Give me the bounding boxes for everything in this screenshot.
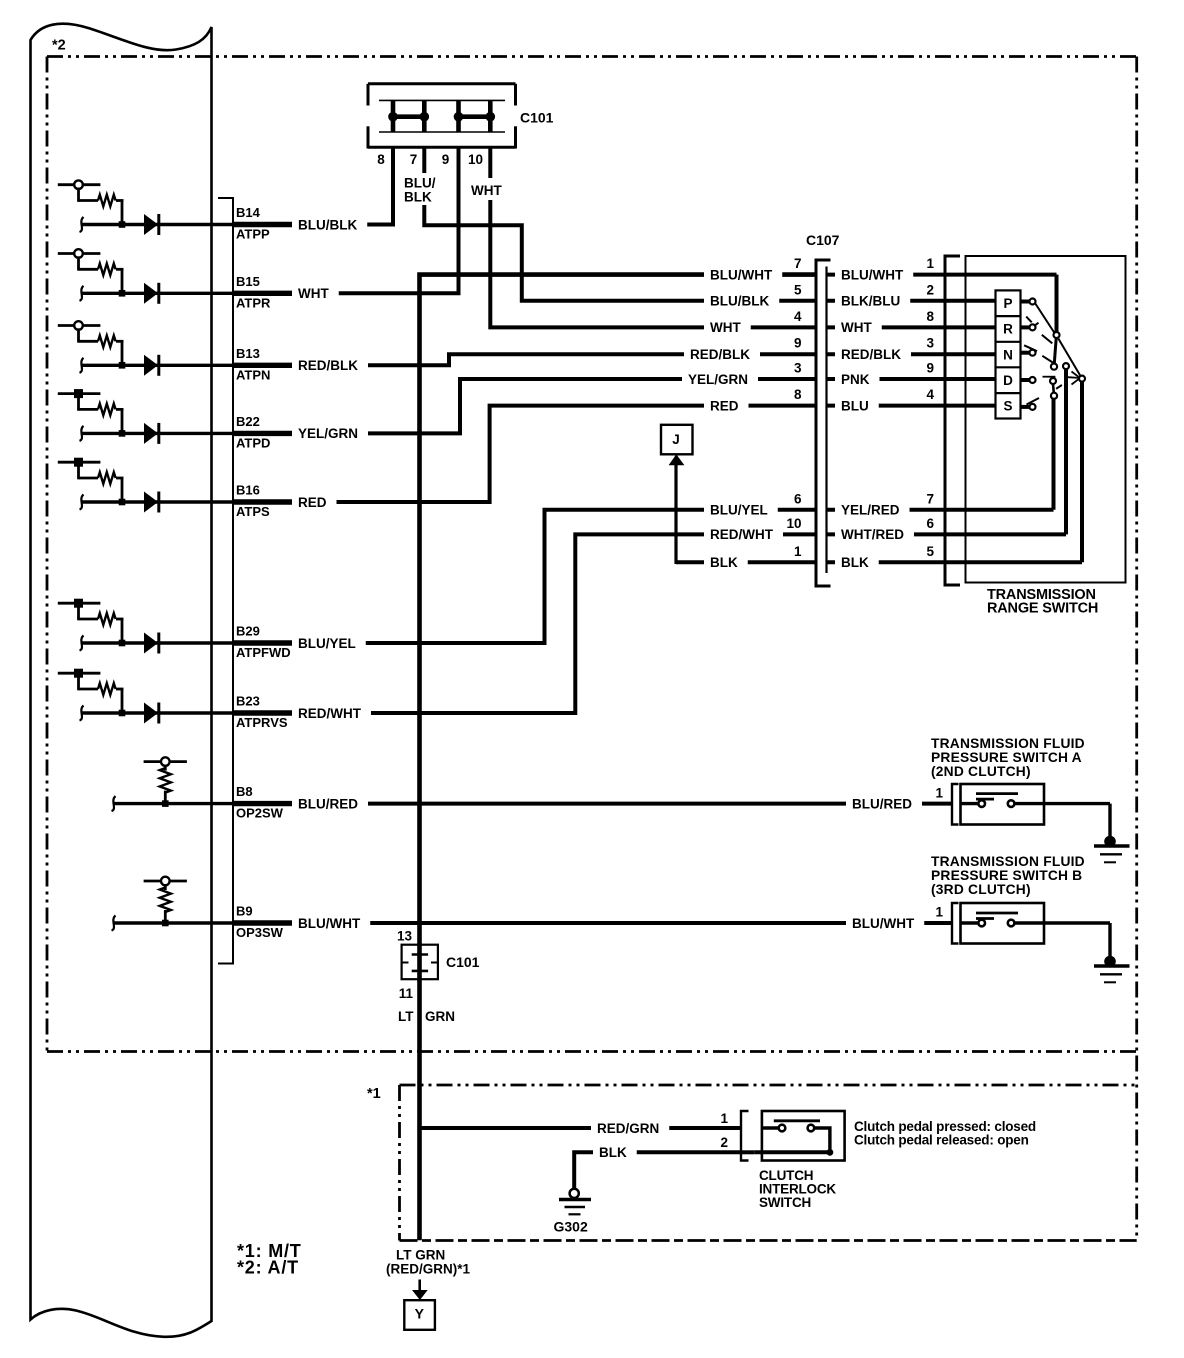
svg-text:RANGE SWITCH: RANGE SWITCH xyxy=(987,601,1098,617)
svg-text:4: 4 xyxy=(794,309,802,324)
wire label BLU/YEL (B29) xyxy=(292,635,366,651)
svg-text:S: S xyxy=(1003,399,1012,414)
svg-text:BLU/WHT: BLU/WHT xyxy=(852,916,915,931)
svg-text:RED/GRN: RED/GRN xyxy=(597,1121,659,1136)
pin stub B23/ATPRVS xyxy=(233,710,295,715)
pin stub B14/ATPP xyxy=(233,222,295,227)
contacts D2-E chain xyxy=(1050,378,1056,384)
clutch interlock switch box xyxy=(762,1111,845,1161)
PCM pin B22 ATPD input circuit xyxy=(58,392,101,395)
svg-text:5: 5 xyxy=(794,282,802,297)
svg-text:PNK: PNK xyxy=(841,372,870,387)
svg-text:SWITCH: SWITCH xyxy=(759,1195,811,1210)
clutch switch blade xyxy=(774,1119,820,1122)
svg-text:ATPP: ATPP xyxy=(236,227,270,242)
svg-text:9: 9 xyxy=(794,336,802,351)
C107 left pin 3 label YEL/GRN xyxy=(682,371,758,387)
pressure switch box xyxy=(961,903,1045,944)
C107 left pin 5 label BLU/BLK xyxy=(704,293,779,309)
svg-text:13: 13 xyxy=(397,929,413,944)
svg-text:G302: G302 xyxy=(554,1219,588,1235)
wire RED/GRN to clutch interlock switch pin 1 xyxy=(420,1126,742,1130)
svg-text:P: P xyxy=(1003,296,1012,311)
svg-text:1: 1 xyxy=(935,785,943,800)
pin stub B9/OP3SW xyxy=(233,920,295,925)
wire B16 RED to C107 pin 8 xyxy=(233,406,816,502)
wire label WHT (pin10 drop) xyxy=(466,178,515,200)
wire B13 RED/BLK to C107 pin 9 xyxy=(233,354,816,365)
wire B23 RED/WHT to C107 pin 10 xyxy=(233,534,816,713)
C107 right half pin strip xyxy=(825,267,827,574)
switch contacts xyxy=(961,921,979,924)
svg-text:8: 8 xyxy=(377,152,385,167)
svg-text:RED/WHT: RED/WHT xyxy=(298,706,362,721)
pressure switch connector bracket xyxy=(952,784,959,825)
switch blade xyxy=(976,912,1018,915)
svg-text:TRANSMISSION FLUID: TRANSMISSION FLUID xyxy=(931,854,1085,869)
svg-text:BLU: BLU xyxy=(841,398,869,413)
svg-text:ATPN: ATPN xyxy=(236,367,270,382)
svg-text:WHT: WHT xyxy=(710,320,741,335)
svg-text:6: 6 xyxy=(926,516,934,531)
wire B14 BLU/BLK to C101 pin 8 xyxy=(233,148,393,225)
wire BLK from clutch interlock switch pin 2 to G302 xyxy=(755,1150,830,1154)
C107 left pin 8 label RED xyxy=(704,398,748,414)
svg-text:9: 9 xyxy=(442,152,450,167)
svg-text:BLU/WHT: BLU/WHT xyxy=(710,267,773,282)
wire B9 BLU/WHT to pressure switch B xyxy=(233,921,952,925)
PCM pin B9 OP3SW input circuit xyxy=(144,880,187,883)
C107 right pin 9 wire PNK xyxy=(827,377,996,381)
svg-text:8: 8 xyxy=(926,309,934,324)
switch blade xyxy=(976,792,1018,795)
svg-text:TRANSMISSION FLUID: TRANSMISSION FLUID xyxy=(931,736,1085,751)
svg-text:YEL/GRN: YEL/GRN xyxy=(298,426,358,441)
C107 right pin 6 wire WHT/RED xyxy=(827,532,1067,536)
connector C101 (top) body xyxy=(368,82,516,85)
svg-text:BLU/YEL: BLU/YEL xyxy=(298,636,356,651)
C107 right pin 1 wire BLU/WHT xyxy=(827,273,1057,277)
pin stub B13/ATPN xyxy=(233,363,295,368)
pressure switch box xyxy=(961,784,1045,825)
C107 right pin 4 wire BLU xyxy=(827,404,996,408)
svg-text:BLK: BLK xyxy=(404,190,432,205)
svg-text:1: 1 xyxy=(720,1111,728,1126)
PCM pin B15 ATPR input circuit xyxy=(58,252,101,255)
svg-text:B22: B22 xyxy=(236,414,260,429)
svg-text:*2: *2 xyxy=(52,38,66,54)
svg-text:BLK: BLK xyxy=(841,555,869,570)
svg-text:(2ND CLUTCH): (2ND CLUTCH) xyxy=(931,764,1031,779)
connector J box xyxy=(661,425,693,455)
wire label BLU/BLK (B14) xyxy=(292,217,367,233)
wire label RED/BLK (B13) xyxy=(292,357,368,373)
svg-text:B9: B9 xyxy=(236,904,253,919)
wire label RED/WHT (B23) xyxy=(292,705,371,721)
C107 right pin 2 wire BLK/BLU xyxy=(827,299,996,303)
travel dashes xyxy=(1026,317,1032,323)
svg-text:BLU/RED: BLU/RED xyxy=(852,796,912,811)
svg-text:5: 5 xyxy=(926,544,934,559)
svg-text:3: 3 xyxy=(794,361,802,376)
arrow to Y xyxy=(418,1280,421,1292)
C107 right pin 7 wire YEL/RED xyxy=(827,508,1054,512)
wire B29 BLU/YEL to C107 pin 6 xyxy=(233,510,816,643)
pin stub B29/ATPFWD xyxy=(233,640,295,645)
svg-text:BLU/WHT: BLU/WHT xyxy=(298,916,361,931)
clutch switch internal wire xyxy=(814,1128,830,1152)
pin stub B16/ATPS xyxy=(233,499,295,504)
ground G302 xyxy=(570,1189,579,1198)
svg-text:BLU/: BLU/ xyxy=(404,176,436,191)
PCM pin B13 ATPN input circuit xyxy=(58,324,101,327)
pivot pointer xyxy=(1068,376,1079,379)
svg-text:BLU/YEL: BLU/YEL xyxy=(710,503,768,518)
wire B15 WHT to C101 pin 9 xyxy=(233,148,459,293)
C107 right pin 8 wire WHT xyxy=(827,325,996,329)
range switch fixed contacts xyxy=(1021,300,1030,304)
C107 right pin 3 wire RED/BLK xyxy=(827,352,996,356)
wiper link A-B xyxy=(1054,338,1056,364)
svg-text:1: 1 xyxy=(926,256,934,271)
svg-text:1: 1 xyxy=(794,544,802,559)
PCM pin B16 ATPS input circuit xyxy=(58,461,101,464)
svg-text:BLU/BLK: BLU/BLK xyxy=(710,294,769,309)
svg-text:RED: RED xyxy=(298,495,327,510)
pin1 riser into switch xyxy=(1055,275,1059,332)
svg-text:RED/BLK: RED/BLK xyxy=(690,347,750,362)
arm A to pivot xyxy=(1058,339,1080,377)
svg-text:10: 10 xyxy=(786,516,801,531)
svg-text:J: J xyxy=(672,432,680,447)
svg-text:WHT/RED: WHT/RED xyxy=(841,527,904,542)
svg-text:BLK/BLU: BLK/BLU xyxy=(841,294,900,309)
svg-text:(RED/GRN)*1: (RED/GRN)*1 xyxy=(386,1262,470,1277)
svg-text:7: 7 xyxy=(926,491,934,506)
svg-text:R: R xyxy=(1003,322,1013,337)
riser to pin 5 xyxy=(1080,382,1084,563)
dash-dot border of A/T (*2) block xyxy=(47,55,1137,58)
transmission range switch box xyxy=(966,256,1126,583)
svg-text:BLU/BLK: BLU/BLK xyxy=(298,217,357,232)
wire BLK from J to C107 pin 1 xyxy=(676,560,816,564)
D row line xyxy=(1043,376,1056,378)
ground wire xyxy=(1108,804,1111,842)
contact C xyxy=(1063,363,1069,369)
wire C101 pin 10 WHT to C107 pin 4 xyxy=(490,148,816,327)
ground wire xyxy=(1108,923,1111,962)
PCM connector bracket (B pins) xyxy=(218,198,233,964)
svg-text:B13: B13 xyxy=(236,346,260,361)
wire B8 BLU/RED to pressure switch A xyxy=(233,802,952,806)
svg-text:B23: B23 xyxy=(236,694,260,709)
range switch connector bracket xyxy=(945,256,960,585)
svg-text:WHT: WHT xyxy=(841,320,872,335)
C107 left pin 7 label BLU/WHT xyxy=(704,267,782,283)
riser to pin 6 xyxy=(1064,369,1068,534)
svg-text:BLK: BLK xyxy=(599,1145,627,1160)
wire label YEL/GRN (B22) xyxy=(292,425,368,441)
svg-text:8: 8 xyxy=(794,387,802,402)
clutch interlock switch bracket xyxy=(741,1111,749,1161)
svg-text:(3RD CLUTCH): (3RD CLUTCH) xyxy=(931,882,1031,897)
arrowhead to J xyxy=(669,454,685,465)
svg-text:PRESSURE SWITCH B: PRESSURE SWITCH B xyxy=(931,868,1082,883)
svg-text:WHT: WHT xyxy=(298,286,329,301)
C107 left pin 9 label RED/BLK xyxy=(684,346,760,362)
PRNDS position boxes xyxy=(996,290,1021,418)
PCM pin B29 ATPFWD input circuit xyxy=(58,602,101,605)
C101 pins 8,7,9,10 xyxy=(391,100,396,132)
PCM pin B8 OP2SW input circuit xyxy=(144,760,187,763)
svg-text:LT GRN: LT GRN xyxy=(396,1248,445,1263)
C107 left pin 10 label RED/WHT xyxy=(704,526,783,542)
svg-text:*2: A/T: *2: A/T xyxy=(237,1258,299,1278)
svg-text:ATPRVS: ATPRVS xyxy=(236,715,288,730)
connector C101 (bottom) box xyxy=(402,945,438,980)
svg-text:1: 1 xyxy=(935,905,943,920)
riser to pin 7 xyxy=(1052,399,1056,510)
svg-text:C101: C101 xyxy=(520,110,554,126)
svg-text:9: 9 xyxy=(926,361,934,376)
svg-text:RED/WHT: RED/WHT xyxy=(710,527,774,542)
C107 left bracket xyxy=(816,260,831,586)
svg-text:OP2SW: OP2SW xyxy=(236,806,284,821)
svg-text:N: N xyxy=(1003,347,1013,362)
svg-text:RED/BLK: RED/BLK xyxy=(841,347,901,362)
svg-text:BLK: BLK xyxy=(710,555,738,570)
dash-dot border of M/T (*1) block xyxy=(400,1084,1137,1087)
wire label BLU/WHT (B9) xyxy=(292,915,370,931)
svg-text:6: 6 xyxy=(794,491,802,506)
C107 left pin 4 label WHT xyxy=(704,319,751,335)
wire label WHT (B15) xyxy=(292,285,339,301)
wire label BLU/BLK (pin7 drop) xyxy=(402,173,440,205)
ground symbol xyxy=(1104,956,1116,968)
svg-text:B29: B29 xyxy=(236,624,260,639)
svg-text:ATPD: ATPD xyxy=(236,435,270,450)
C107 right pin 5 wire BLK xyxy=(827,560,1083,564)
svg-text:4: 4 xyxy=(926,387,934,402)
wire BLU/WHT riser: C107 pin 7 / B9 / C101 pin 13 xyxy=(420,275,817,1241)
svg-text:RED/BLK: RED/BLK xyxy=(298,358,358,373)
pressure switch connector bracket xyxy=(952,903,959,944)
P wiper arm xyxy=(1035,303,1055,333)
svg-text:ATPR: ATPR xyxy=(236,295,271,310)
svg-text:7: 7 xyxy=(410,152,418,167)
svg-text:B15: B15 xyxy=(236,274,260,289)
connector Y box xyxy=(404,1300,435,1330)
C107 left pin 1 label BLK xyxy=(704,554,748,570)
svg-text:D: D xyxy=(1003,373,1013,388)
svg-text:ATPS: ATPS xyxy=(236,504,270,519)
svg-text:3: 3 xyxy=(926,336,934,351)
pin stub B8/OP2SW xyxy=(233,801,295,806)
svg-text:7: 7 xyxy=(794,256,802,271)
wire C101 pin 7 BLU/BLK to C107 pin 5 xyxy=(424,148,816,301)
svg-text:YEL/RED: YEL/RED xyxy=(841,503,900,518)
svg-text:BLU/RED: BLU/RED xyxy=(298,796,358,811)
ground symbol xyxy=(1104,836,1116,848)
svg-text:Y: Y xyxy=(415,1306,425,1322)
svg-text:11: 11 xyxy=(399,986,414,1001)
svg-text:C107: C107 xyxy=(806,232,840,248)
svg-text:RED: RED xyxy=(710,398,739,413)
pivot contact xyxy=(1079,376,1085,382)
svg-text:B16: B16 xyxy=(236,483,260,498)
svg-text:YEL/GRN: YEL/GRN xyxy=(688,372,748,387)
left torn harness band xyxy=(31,24,212,1337)
svg-text:B14: B14 xyxy=(236,205,261,220)
svg-text:Clutch pedal released: open: Clutch pedal released: open xyxy=(854,1133,1029,1148)
wire label BLU/RED (B8) xyxy=(292,796,368,812)
wire label RED (B16) xyxy=(292,494,336,510)
PCM pin B14 ATPP input circuit xyxy=(58,183,101,186)
svg-text:BLU/WHT: BLU/WHT xyxy=(841,267,904,282)
wire B22 YEL/GRN to C107 pin 3 xyxy=(233,379,816,433)
pin stub B22/ATPD xyxy=(233,431,295,436)
svg-text:2: 2 xyxy=(926,282,934,297)
PCM pin B23 ATPRVS input circuit xyxy=(58,672,101,675)
svg-text:OP3SW: OP3SW xyxy=(236,925,284,940)
svg-text:*1: *1 xyxy=(367,1086,381,1102)
svg-text:2: 2 xyxy=(720,1135,728,1150)
svg-text:ATPFWD: ATPFWD xyxy=(236,645,291,660)
J arrow stem xyxy=(674,464,677,564)
pin stub B15/ATPR xyxy=(233,291,295,296)
svg-text:GRN: GRN xyxy=(425,1009,455,1024)
svg-text:C101: C101 xyxy=(446,954,480,970)
svg-text:B8: B8 xyxy=(236,784,253,799)
svg-text:PRESSURE SWITCH A: PRESSURE SWITCH A xyxy=(931,750,1082,765)
clutch switch contacts xyxy=(762,1126,779,1129)
C107 left pin 6 label BLU/YEL xyxy=(704,502,778,518)
svg-text:LT: LT xyxy=(398,1009,414,1024)
svg-text:WHT: WHT xyxy=(471,183,502,198)
svg-text:10: 10 xyxy=(468,152,483,167)
switch contacts xyxy=(961,802,979,805)
